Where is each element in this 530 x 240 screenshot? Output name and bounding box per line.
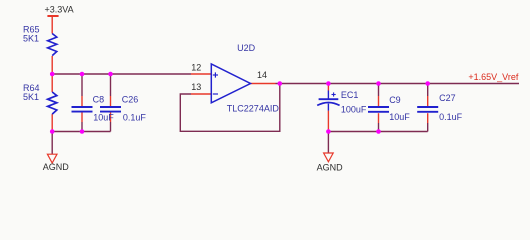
svg-text:TLC2274AID: TLC2274AID [227, 103, 280, 113]
svg-text:10uF: 10uF [389, 112, 410, 122]
svg-text:10uF: 10uF [93, 112, 114, 122]
svg-text:100uF: 100uF [341, 104, 367, 114]
svg-text:C27: C27 [439, 93, 456, 103]
svg-text:5K1: 5K1 [23, 33, 39, 43]
svg-text:+1.65V_Vref: +1.65V_Vref [468, 72, 518, 82]
svg-text:EC1: EC1 [341, 90, 359, 100]
svg-text:0.1uF: 0.1uF [123, 112, 147, 122]
svg-text:C26: C26 [122, 95, 139, 105]
svg-text:13: 13 [191, 82, 201, 92]
svg-text:AGND: AGND [317, 163, 344, 173]
svg-text:AGND: AGND [43, 162, 70, 172]
svg-text:U2D: U2D [237, 43, 256, 53]
svg-text:14: 14 [257, 70, 267, 80]
svg-text:C8: C8 [93, 95, 105, 105]
svg-text:12: 12 [191, 63, 201, 73]
svg-text:C9: C9 [389, 95, 401, 105]
svg-text:+3.3VA: +3.3VA [45, 4, 74, 14]
svg-text:5K1: 5K1 [23, 92, 39, 102]
svg-text:0.1uF: 0.1uF [439, 112, 463, 122]
